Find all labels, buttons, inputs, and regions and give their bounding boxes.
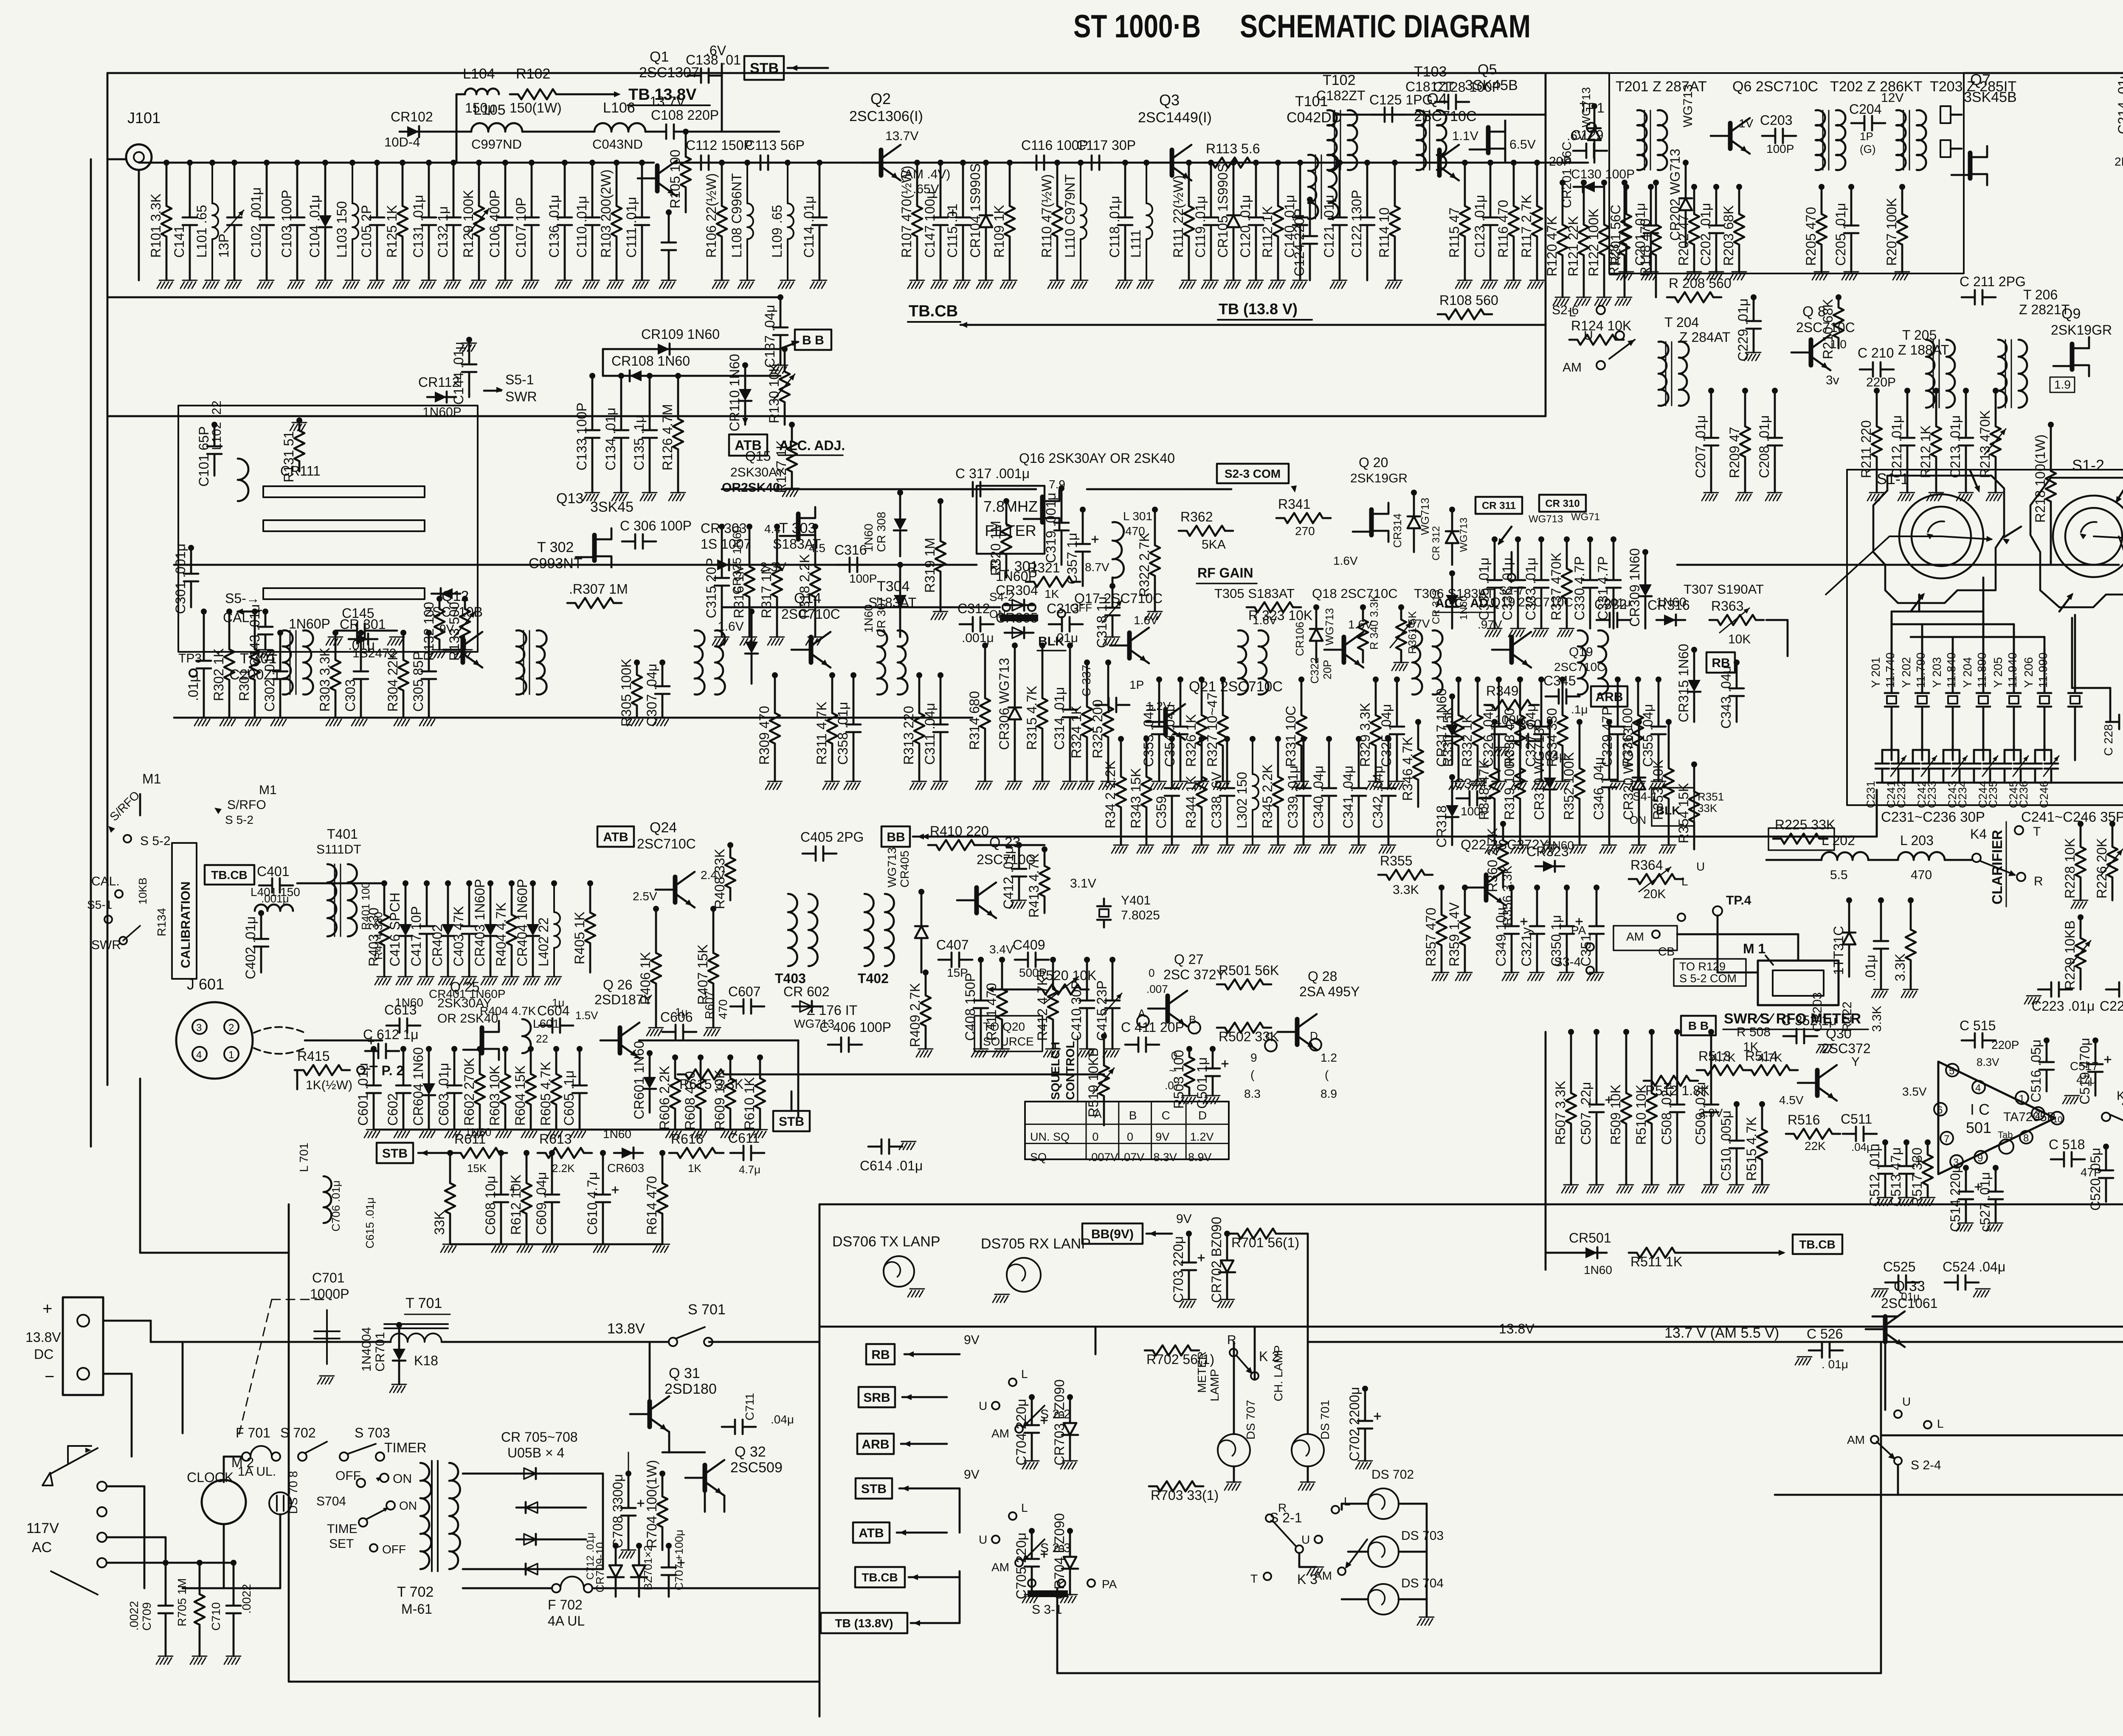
capacitor C235 <box>1998 750 2011 783</box>
svg-text:Q13: Q13 <box>556 490 583 507</box>
svg-text:METER: METER <box>1195 1351 1208 1393</box>
transistor Q22 <box>1484 875 1489 900</box>
capacitor C339 <box>1301 736 1306 742</box>
svg-text:STB: STB <box>779 1115 804 1129</box>
svg-text:2SC1449(I): 2SC1449(I) <box>1138 110 1212 126</box>
svg-text:CR 312: CR 312 <box>1430 526 1442 561</box>
diode CR603 <box>614 1152 643 1154</box>
capacitor C118 <box>1122 160 1128 166</box>
svg-text:4.5: 4.5 <box>809 541 825 555</box>
capacitor C710 <box>231 1560 237 1566</box>
capacitor C231 <box>1875 750 1889 783</box>
capacitor C703 <box>1186 1231 1192 1237</box>
trimmer 13P <box>231 160 237 166</box>
svg-text:C208 .01μ: C208 .01μ <box>1757 415 1772 478</box>
svg-text:C402 .01μ: C402 .01μ <box>243 916 258 979</box>
svg-text:Q 26: Q 26 <box>603 977 632 992</box>
svg-text:R355: R355 <box>1380 853 1413 868</box>
arrow bb2 <box>779 342 798 349</box>
svg-text:CR 602: CR 602 <box>783 984 830 999</box>
svg-text:C106 400P: C106 400P <box>487 190 502 258</box>
resistor R611 <box>453 1148 507 1158</box>
capacitor C311 <box>938 672 943 678</box>
switch S2-6 <box>1596 306 1605 314</box>
resistor R209 <box>1742 388 1748 394</box>
wire ds lamps <box>1399 1503 1427 1505</box>
svg-text:0: 0 <box>1171 1049 1177 1062</box>
svg-text:3.3K: 3.3K <box>1393 883 1419 897</box>
capacitor C603 <box>451 1046 457 1052</box>
wire pw top <box>151 1341 391 1343</box>
diode CR317 <box>1449 693 1455 699</box>
svg-text:CR108 1N60: CR108 1N60 <box>611 353 690 369</box>
svg-text:SRB: SRB <box>863 1391 890 1405</box>
crystal Y <box>1946 685 1960 714</box>
svg-text:C346 .04μ: C346 .04μ <box>1591 757 1606 820</box>
svg-text:2SD187Y: 2SD187Y <box>594 992 653 1007</box>
svg-text:C235: C235 <box>1987 781 1999 808</box>
svg-text:4: 4 <box>196 1049 202 1061</box>
svg-text:C703 220μ: C703 220μ <box>1171 1236 1186 1303</box>
capacitor C124 <box>1307 197 1313 203</box>
svg-text:AM: AM <box>991 1427 1009 1440</box>
fet Q16 <box>1040 497 1045 522</box>
capacitor C128 <box>1435 95 1469 109</box>
diode CR110 <box>742 362 748 368</box>
wire trim pair <box>2005 749 2021 751</box>
resistor R102 <box>510 89 564 99</box>
svg-text:220P: 220P <box>1991 1038 2019 1051</box>
box TB138 <box>821 1613 907 1633</box>
svg-text:BLK: BLK <box>1038 634 1064 648</box>
svg-text:R359 1.4V: R359 1.4V <box>1447 902 1462 967</box>
svg-text:C358 .01μ: C358 .01μ <box>835 702 850 765</box>
svg-text:TO R129: TO R129 <box>1679 960 1726 973</box>
svg-text:S 701: S 701 <box>688 1302 726 1318</box>
inductor L202 <box>1822 852 1868 860</box>
svg-text:C524 .04μ: C524 .04μ <box>1943 1259 2005 1274</box>
svg-text:C135 .1μ: C135 .1μ <box>631 415 647 471</box>
svg-text:R122 100K: R122 100K <box>1586 209 1601 276</box>
inductor L103 <box>349 160 355 166</box>
box STB <box>744 56 784 80</box>
svg-text:C401: C401 <box>257 864 290 879</box>
svg-text:R327 10~47: R327 10~47 <box>1205 693 1220 767</box>
svg-text:S4-2: S4-2 <box>989 590 1014 603</box>
capacitor C316 <box>836 558 870 572</box>
wire web long <box>2071 618 2073 688</box>
transistor Q33 <box>1883 1316 1888 1342</box>
svg-text:C519 470μ: C519 470μ <box>2077 1038 2092 1105</box>
crystal Y <box>2007 685 2021 714</box>
svg-text:C 306 100P: C 306 100P <box>620 518 692 533</box>
resistor R131 <box>296 417 302 423</box>
resistor R322 <box>1152 507 1158 513</box>
svg-text:1V: 1V <box>1739 117 1754 130</box>
svg-text:F 702: F 702 <box>548 1597 583 1612</box>
capacitor C520 <box>2103 1144 2109 1150</box>
svg-text:11.790: 11.790 <box>1914 652 1927 688</box>
diode CR405 <box>918 889 924 895</box>
svg-text:T102: T102 <box>1323 72 1356 88</box>
svg-text:Q22: Q22 <box>1461 837 1486 852</box>
svg-text:Q21 2SC710C: Q21 2SC710C <box>1189 679 1283 695</box>
inductor T701 <box>391 1333 442 1342</box>
potentiometer R226 <box>2109 821 2115 827</box>
svg-text:Q7: Q7 <box>1970 71 1991 88</box>
transformer T203 <box>1896 110 1906 170</box>
capacitor C711 <box>722 1420 756 1434</box>
box S2-3 COM <box>1217 464 1289 483</box>
svg-text:−: − <box>45 1367 54 1386</box>
capacitor C326 <box>1496 676 1502 682</box>
svg-text:Q 31: Q 31 <box>669 1365 700 1381</box>
svg-text:R316 1M: R316 1M <box>731 563 746 618</box>
svg-text:C102 .001μ: C102 .001μ <box>248 187 264 258</box>
capacitor C228 <box>2106 715 2123 729</box>
capacitor C116 <box>1023 155 1057 170</box>
svg-text:1.2V: 1.2V <box>1146 699 1171 713</box>
transistor Q14 <box>809 637 814 662</box>
svg-text:C331 4.7P: C331 4.7P <box>1595 556 1611 620</box>
switch K4 <box>1972 854 1981 862</box>
capacitor C409 <box>1015 953 1049 967</box>
capacitor C401 <box>259 878 293 893</box>
svg-text:10KB: 10KB <box>136 877 149 905</box>
svg-text:C125 1PG: C125 1PG <box>1369 92 1433 107</box>
svg-text:L109 .65: L109 .65 <box>769 205 785 258</box>
resistor R225 <box>1773 834 1827 844</box>
capacitor C329 <box>1615 676 1621 682</box>
capacitor C343 <box>1734 659 1740 665</box>
svg-text:.R307 1M: .R307 1M <box>569 581 628 597</box>
potentiometer R133 <box>462 596 468 602</box>
transformer T402 <box>864 894 874 966</box>
resistor R321 <box>1026 577 1080 587</box>
capacitor C106 <box>502 160 508 166</box>
svg-text:BLK: BLK <box>1656 804 1681 817</box>
lamp DS701 <box>1292 1434 1324 1466</box>
svg-text:C236: C236 <box>2017 781 2030 808</box>
wire q24 bus <box>297 882 382 885</box>
svg-text:R603 10K: R603 10K <box>487 1065 502 1126</box>
svg-text:CONTROL: CONTROL <box>1064 1041 1077 1100</box>
svg-text:S704: S704 <box>316 1494 346 1508</box>
wire cr109 <box>603 348 650 350</box>
resistor R330 <box>1456 676 1461 682</box>
svg-text:C345: C345 <box>1543 673 1576 688</box>
resistor R410 <box>928 840 983 850</box>
diode CR402 <box>445 880 451 886</box>
svg-text:Q 25: Q 25 <box>450 979 479 995</box>
capacitor C145 <box>344 623 378 638</box>
diode CR106 <box>1313 604 1319 610</box>
svg-text:8.3: 8.3 <box>1244 1087 1261 1100</box>
box STB mic <box>773 1111 810 1131</box>
svg-text:CR 301: CR 301 <box>340 617 386 632</box>
svg-text:C512 .01μ: C512 .01μ <box>1867 1144 1882 1206</box>
inductor L101 <box>209 160 215 166</box>
svg-text:2SC710C: 2SC710C <box>637 836 696 851</box>
diode CR312 <box>1449 507 1455 513</box>
fet Q15 <box>796 514 801 539</box>
svg-text:C417 10P: C417 10P <box>408 906 424 967</box>
lamp DS705 <box>1007 1258 1041 1292</box>
resistor R344 <box>1199 736 1205 742</box>
svg-text:TP.4: TP.4 <box>1726 893 1751 907</box>
svg-text:470: 470 <box>1911 868 1932 882</box>
ground R131 <box>290 423 307 431</box>
svg-text:2SK30AY: 2SK30AY <box>437 996 492 1010</box>
svg-text:1N60: 1N60 <box>1546 839 1574 852</box>
wire pw bottom <box>463 1587 552 1589</box>
diode D1TT31C <box>1846 897 1852 903</box>
capacitor C402 <box>258 910 264 916</box>
capacitor C338 <box>1224 736 1230 742</box>
crystal Y401 <box>1097 899 1111 927</box>
svg-text:C708 3300μ: C708 3300μ <box>610 1474 625 1548</box>
svg-text:R401 100: R401 100 <box>359 882 372 930</box>
transformer T2 <box>516 630 526 694</box>
svg-text:C344: C344 <box>1454 776 1487 791</box>
svg-text:3SK45B: 3SK45B <box>1964 89 2017 105</box>
transformer T1 <box>283 631 293 695</box>
svg-text:C341 .04μ: C341 .04μ <box>1340 766 1356 829</box>
wire ac <box>107 1485 144 1488</box>
resistor R610 <box>757 1054 763 1060</box>
svg-text:STB: STB <box>861 1482 887 1496</box>
svg-text:C601 .01μ: C601 .01μ <box>355 1063 371 1126</box>
svg-text:CR405: CR405 <box>898 851 911 888</box>
capacitor C612 <box>365 1044 399 1058</box>
svg-text:CLOCK: CLOCK <box>187 1470 234 1485</box>
svg-text:Y401: Y401 <box>1121 893 1151 907</box>
inductor L106 <box>594 123 645 132</box>
svg-text:A: A <box>1094 1108 1102 1120</box>
svg-text:OFF: OFF <box>382 1543 406 1556</box>
svg-text:C104 .01μ: C104 .01μ <box>307 195 322 258</box>
svg-text:Y 206: Y 206 <box>2022 657 2035 688</box>
transformer T702 <box>420 1463 431 1569</box>
arrow tbcb <box>960 322 967 328</box>
capacitor C108 <box>653 124 687 139</box>
svg-text:.001μ: .001μ <box>962 631 994 645</box>
capacitor C305 <box>426 630 432 636</box>
clock M2 <box>202 1480 246 1524</box>
svg-text:C212 .01μ: C212 .01μ <box>1889 415 1904 478</box>
svg-text:501: 501 <box>1966 1119 1991 1136</box>
wire stb mic <box>791 1091 793 1111</box>
transformer T204 <box>1658 341 1668 406</box>
svg-text:RB: RB <box>871 1348 890 1362</box>
svg-text:L: L <box>1344 1495 1351 1508</box>
capacitor C704 <box>1029 1394 1035 1400</box>
svg-text:c527 .01μ: c527 .01μ <box>1977 1172 1993 1232</box>
capacitor C357 <box>1080 507 1086 513</box>
capacitor C213 <box>1963 388 1969 394</box>
svg-text:ATB: ATB <box>859 1526 884 1540</box>
resistor R354 <box>1691 761 1697 767</box>
svg-text:R325 200: R325 200 <box>1090 699 1105 758</box>
capacitor C501 <box>1210 1046 1216 1052</box>
svg-text:C120 .01μ: C120 .01μ <box>1238 195 1253 258</box>
capacitor C224 <box>2106 982 2123 997</box>
svg-text:R226 20K: R226 20K <box>2094 838 2109 899</box>
capacitor C526 <box>1809 1343 1843 1358</box>
svg-text:C340 .04μ: C340 .04μ <box>1311 766 1326 829</box>
svg-text:DS706 TX LANP: DS706 TX LANP <box>832 1234 940 1250</box>
arrow s1 f <box>2059 595 2072 612</box>
capacitor C147 <box>938 160 943 166</box>
switch S701 <box>669 1338 677 1346</box>
svg-text:C 337: C 337 <box>1080 665 1093 696</box>
svg-text:R703 33(1): R703 33(1) <box>1151 1488 1219 1503</box>
transistor Q27 <box>1166 996 1170 1021</box>
svg-text:C507 .22μ: C507 .22μ <box>1578 1082 1594 1145</box>
diode CR306 <box>1012 643 1018 648</box>
resistor R415 <box>296 1065 350 1075</box>
svg-text:STB: STB <box>382 1147 408 1161</box>
svg-text:U: U <box>1301 1533 1310 1546</box>
svg-text:R 508: R 508 <box>1737 1025 1771 1039</box>
wire bus y980 <box>107 415 1546 417</box>
svg-text:R349: R349 <box>1486 683 1519 699</box>
inductor L302 <box>1250 736 1256 742</box>
svg-text:AM: AM <box>1314 1569 1332 1582</box>
svg-text:2SK19GR: 2SK19GR <box>2051 322 2112 338</box>
svg-text:R608 470: R608 470 <box>682 1071 698 1130</box>
arrow s1 a <box>1970 471 1979 490</box>
capacitor C212 <box>1904 388 1910 394</box>
svg-text:10K: 10K <box>1728 632 1751 646</box>
label TO R129 <box>1674 959 1746 986</box>
svg-text:ON: ON <box>989 608 1006 620</box>
svg-text:R112 1K: R112 1K <box>1260 206 1275 258</box>
svg-text:C412 .01μ: C412 .01μ <box>1001 846 1016 909</box>
svg-text:CR 308: CR 308 <box>875 512 888 552</box>
svg-text:R101 3.3K: R101 3.3K <box>148 194 163 258</box>
crystal Y2xx <box>2068 685 2082 714</box>
svg-text:2.2K: 2.2K <box>552 1162 575 1175</box>
capacitor C103 <box>294 160 300 166</box>
trimmer C415 <box>1109 957 1115 963</box>
lamp DS707 <box>1218 1434 1250 1466</box>
svg-text:TB.CB: TB.CB <box>1799 1238 1836 1251</box>
transistor Q19 <box>1509 637 1514 662</box>
svg-text:T: T <box>1250 1572 1258 1585</box>
svg-text:C614 .01μ: C614 .01μ <box>860 1158 923 1173</box>
wire rb link <box>1766 619 1788 621</box>
svg-text:33K: 33K <box>1698 802 1718 814</box>
svg-text:R405 1K: R405 1K <box>572 911 587 964</box>
wire x4430 vert <box>1880 1342 1882 1673</box>
svg-text:C510 .005μ: C510 .005μ <box>1718 1110 1734 1181</box>
svg-text:C525: C525 <box>1883 1259 1916 1274</box>
svg-text:ARB: ARB <box>1596 690 1623 704</box>
box CALIBRATION <box>172 843 197 979</box>
wire mic gnd bus <box>374 1129 760 1131</box>
capacitor C602 <box>400 1046 406 1052</box>
svg-text:SCHEMATIC DIAGRAM: SCHEMATIC DIAGRAM <box>1240 8 1531 45</box>
svg-text:DS705 RX LANP: DS705 RX LANP <box>981 1236 1091 1252</box>
transformer T101 <box>1308 155 1318 219</box>
resistor R318 <box>812 524 818 530</box>
resistor R113 <box>1204 158 1259 168</box>
wire r615 <box>295 1069 297 1071</box>
svg-text:22K: 22K <box>1805 1139 1826 1153</box>
potentiometer R130 <box>782 346 788 352</box>
svg-text:(G): (G) <box>1860 143 1876 155</box>
resistor R359 <box>1462 885 1468 891</box>
capacitor C233 <box>1937 750 1950 783</box>
svg-text:8.7V: 8.7V <box>1085 561 1109 574</box>
svg-text:C107 10P: C107 10P <box>513 197 529 258</box>
capacitor C515 <box>1962 1033 1996 1048</box>
box TO Q20 <box>974 1016 1042 1051</box>
svg-text:R414 330: R414 330 <box>372 912 385 960</box>
svg-text:C241~C246 35P: C241~C246 35P <box>2021 809 2123 825</box>
wire cr501 <box>1546 1252 1578 1254</box>
arrow s1 b <box>2004 527 2021 537</box>
svg-text:R604 15K: R604 15K <box>512 1065 528 1126</box>
svg-text:7.9: 7.9 <box>1049 478 1065 491</box>
transistor Q30 <box>1815 1070 1820 1096</box>
svg-text:R313 220: R313 220 <box>901 706 916 765</box>
diode CR404 <box>530 880 536 886</box>
svg-text:C357 1μ: C357 1μ <box>1064 533 1080 584</box>
switch S3-1 <box>1028 1579 1036 1587</box>
label CR310 <box>1539 495 1586 512</box>
svg-text:K18: K18 <box>414 1353 438 1368</box>
box BB <box>795 330 831 350</box>
transistor Q8 <box>1809 340 1813 365</box>
svg-text:C338 .6V: C338 .6V <box>1209 772 1224 829</box>
svg-text:C322: C322 <box>1308 657 1321 684</box>
inductor L601 <box>522 1019 531 1053</box>
diode CR303 <box>710 564 738 566</box>
box STB 3 <box>377 1143 413 1163</box>
switch S1-1 wafer <box>1873 476 2004 603</box>
svg-text:S111DT: S111DT <box>316 843 361 857</box>
svg-text:S5-1: S5-1 <box>505 372 534 387</box>
diode CR301 <box>349 638 377 640</box>
wire top rail <box>107 72 1608 74</box>
svg-text:R213 470K: R213 470K <box>1977 410 1993 478</box>
box ATB 2 <box>597 826 634 847</box>
diode CR601 <box>647 1050 653 1056</box>
svg-text:8.3V: 8.3V <box>1977 1056 1999 1068</box>
svg-text:S 702: S 702 <box>280 1425 316 1440</box>
trimmer C243 <box>1953 750 1966 783</box>
resistor R502 <box>1217 1023 1271 1033</box>
svg-text:C134 .01μ: C134 .01μ <box>603 408 618 471</box>
svg-text:11.840: 11.840 <box>1945 652 1958 688</box>
capacitor C408 <box>978 957 984 963</box>
potentiometer R361 <box>1398 604 1404 610</box>
svg-text:1N60: 1N60 <box>395 996 423 1009</box>
wire bottom rail <box>1881 1434 2123 1437</box>
svg-text:M-61: M-61 <box>401 1601 432 1617</box>
svg-text:C342 .04μ: C342 .04μ <box>1370 766 1385 829</box>
svg-text:3.5V: 3.5V <box>1902 1085 1927 1098</box>
inductor L111 <box>1143 160 1149 166</box>
svg-text:S1-2: S1-2 <box>2072 457 2104 474</box>
capacitor C407 <box>938 953 972 967</box>
resistor R218 <box>2048 422 2054 428</box>
wire stb bus v <box>959 1488 961 1533</box>
resistor R517 <box>1925 1139 1931 1145</box>
wire bus y765 tbcb <box>960 324 1546 326</box>
